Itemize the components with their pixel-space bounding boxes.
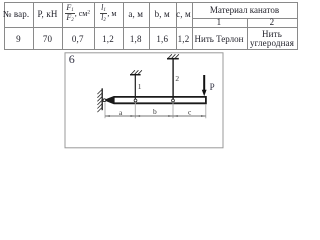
header: c, м — [176, 2, 192, 27]
svg-text:1: 1 — [138, 82, 142, 91]
rope 2 — [172, 59, 174, 100]
dimension arrowheads at rope 1 boundary — [131, 115, 141, 117]
dimension arrowhead left end (points left) — [105, 115, 110, 117]
rope 1 ceiling anchor — [130, 70, 142, 74]
data row — [4, 30, 33, 48]
rope 1 — [134, 75, 136, 100]
wall support line — [101, 88, 103, 110]
subheader 1 — [192, 18, 247, 27]
table vertical gridlines — [33, 2, 34, 49]
svg-text:c: c — [188, 107, 192, 116]
extension line at pin — [104, 102, 106, 118]
extension line at beam end — [205, 104, 207, 118]
header: b, м — [149, 2, 176, 27]
figure frame — [65, 53, 223, 148]
svg-text:b: b — [153, 107, 157, 116]
header: F1/F2, см2 — [62, 1, 94, 26]
dimension line — [105, 115, 206, 117]
beam — [106, 96, 206, 104]
rope 2 label — [175, 74, 179, 83]
svg-text:a: a — [119, 108, 123, 117]
wall hatching — [97, 90, 102, 113]
header: Р, кН — [33, 2, 62, 27]
dimension label b — [153, 107, 157, 116]
dimension arrowhead right end (points right) — [201, 115, 206, 117]
dimension label c — [188, 107, 192, 116]
rope 1 label — [138, 82, 142, 91]
header: № вар. — [2, 2, 31, 27]
subheader 2 — [247, 18, 298, 27]
rope 2 pin — [172, 99, 175, 102]
header: l1/l2, м — [94, 1, 123, 26]
pin joint at wall — [103, 99, 106, 102]
figure number 6 — [69, 52, 75, 66]
svg-text:P: P — [210, 82, 215, 92]
force P label — [210, 82, 215, 92]
extension line at rope 1 — [134, 102, 136, 118]
extension line at rope 2 — [172, 102, 174, 118]
rope 2 ceiling anchor — [167, 54, 179, 58]
table outer border — [4, 2, 298, 50]
table horizontal gridlines — [192, 18, 298, 19]
svg-text:2: 2 — [175, 74, 179, 83]
dimension arrowheads at rope 2 boundary — [168, 115, 178, 117]
header: Материал канатов — [192, 2, 298, 18]
svg-text:6: 6 — [69, 52, 75, 66]
dimension label a — [119, 108, 123, 117]
header: a, м — [123, 2, 150, 27]
force P arrow — [202, 75, 207, 96]
rope 1 pin — [134, 99, 137, 102]
